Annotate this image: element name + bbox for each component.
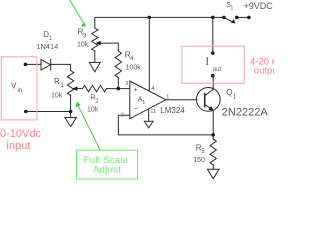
svg-text:−: − <box>134 104 139 113</box>
Full Scale Adjust callout box <box>77 150 138 179</box>
svg-text:outpu: outpu <box>254 66 275 77</box>
node Iout bottom terminal <box>211 74 215 78</box>
node Vin plus terminal <box>24 63 28 67</box>
svg-text:4: 4 <box>151 86 154 92</box>
svg-text:1N414: 1N414 <box>36 42 58 51</box>
wire top rail right segment <box>237 16 249 18</box>
switch S1 <box>224 17 233 22</box>
svg-text:150: 150 <box>193 157 205 164</box>
wire pin 4 drop <box>148 17 150 90</box>
ground R3 <box>89 62 100 71</box>
node switch right contact <box>235 16 239 20</box>
ground op-amp <box>144 121 153 128</box>
wire R1 wiper to R2 <box>77 88 83 90</box>
op-amp A1 <box>130 81 166 119</box>
wire pin 2 feedback <box>118 115 213 135</box>
wire Vin plus to diode <box>25 63 41 65</box>
switch S1 lever arrowhead <box>231 19 236 23</box>
resistor R1 <box>67 71 73 96</box>
wiper R3 arrow <box>96 41 101 46</box>
svg-text:in: in <box>18 88 23 94</box>
wire ground stub R1 <box>70 112 72 118</box>
Iout load box <box>182 46 244 83</box>
transistor Q1 base bar <box>204 94 206 107</box>
svg-text:2N2222A: 2N2222A <box>222 107 269 119</box>
green pointer to R1 (full scale) <box>78 106 100 150</box>
node +9VDC terminal <box>247 16 251 20</box>
wire top rail left segment <box>95 17 224 28</box>
wire R4 bottom stub <box>117 78 119 89</box>
node switch left contact <box>222 16 226 20</box>
wire R5 top stub <box>212 135 214 139</box>
node R2 R4 junction <box>117 87 121 91</box>
node Iout rail junction <box>211 16 215 20</box>
resistor R2 <box>83 85 107 91</box>
wire Vin minus rail <box>26 111 71 113</box>
svg-text:2: 2 <box>121 113 124 119</box>
resistor R4 <box>115 51 121 78</box>
wire R3 ground stub <box>94 51 96 62</box>
node R1 bottom junction <box>69 110 73 114</box>
Vin source box <box>1 57 37 120</box>
svg-text:10k: 10k <box>51 93 63 100</box>
wiper R1 arrow <box>72 86 77 91</box>
node Vin minus terminal <box>24 110 28 114</box>
wire op-amp output to Q1 base <box>166 99 197 101</box>
svg-text:Adjust: Adjust <box>93 164 121 175</box>
wire Iout drop <box>212 17 214 53</box>
svg-text:3: 3 <box>125 81 128 87</box>
wire pin 11 stub <box>148 109 150 122</box>
diode D1 cathode bar <box>50 60 52 71</box>
svg-text:1: 1 <box>230 6 233 12</box>
svg-text:1: 1 <box>166 94 169 100</box>
svg-text:input: input <box>6 140 30 152</box>
svg-text:100k: 100k <box>126 65 142 72</box>
svg-text:V: V <box>11 81 17 90</box>
node emitter feedback junction <box>211 133 215 137</box>
wire diode to R1 top <box>51 64 71 70</box>
diode D1 <box>41 60 50 71</box>
svg-text:10k: 10k <box>87 107 99 114</box>
wire R5 ground stub <box>212 165 214 169</box>
green pointer to R3 (zero adjust) <box>69 0 85 25</box>
svg-text:11: 11 <box>150 109 156 115</box>
svg-text:R: R <box>54 77 60 86</box>
wire R1 bottom <box>70 95 72 111</box>
node Iout top terminal <box>211 51 215 55</box>
svg-text:I: I <box>205 54 209 68</box>
svg-text:0-10Vdc: 0-10Vdc <box>0 128 41 140</box>
svg-text:+: + <box>133 85 138 94</box>
node pin4 rail junction <box>148 16 152 20</box>
svg-text:out: out <box>213 67 222 73</box>
ground input <box>65 118 77 127</box>
ground R5 <box>207 169 219 179</box>
transistor Q1 emitter arrow <box>208 106 213 111</box>
svg-text:+9VDC: +9VDC <box>244 1 274 11</box>
transistor Q1 <box>196 88 220 112</box>
wire R2 to op-amp pin 3 <box>107 88 130 90</box>
svg-text:Q: Q <box>226 88 232 97</box>
transistor Q1 emitter <box>205 104 214 134</box>
resistor R5 <box>210 139 216 165</box>
transistor Q1 collector <box>205 76 214 96</box>
svg-text:10k: 10k <box>77 42 89 49</box>
svg-text:LM324: LM324 <box>160 106 185 115</box>
wire R3 wiper to R4 <box>100 43 118 51</box>
svg-text:1: 1 <box>142 100 145 106</box>
resistor R3 <box>92 28 98 51</box>
